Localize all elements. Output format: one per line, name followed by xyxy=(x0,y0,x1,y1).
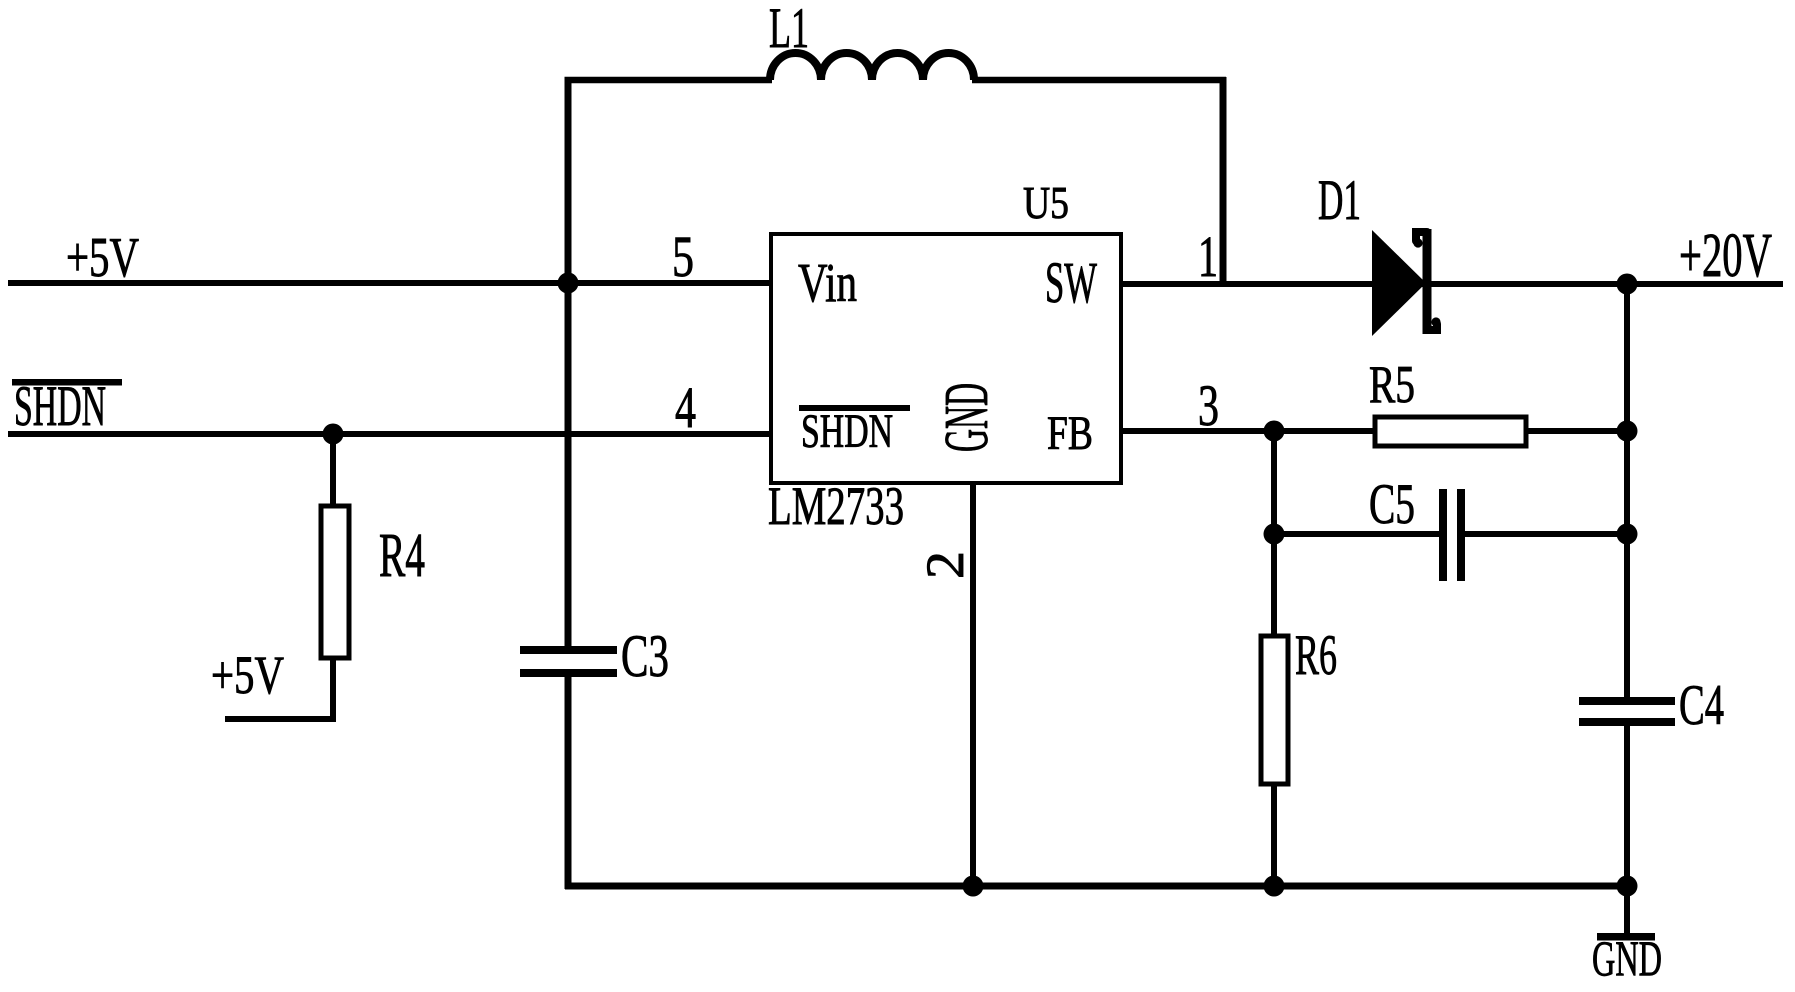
svg-text:+5V: +5V xyxy=(211,645,284,705)
wire C5 right lead xyxy=(1462,531,1627,537)
resistor R5 xyxy=(1369,356,1526,446)
svg-text:R6: R6 xyxy=(1295,624,1337,687)
label SHDN (net, left) xyxy=(12,375,122,438)
svg-text:GND: GND xyxy=(933,383,1001,452)
node: SHDN / R4 junction xyxy=(323,424,344,445)
wire ground bus xyxy=(565,883,1627,890)
svg-text:2: 2 xyxy=(915,551,975,579)
svg-text:4: 4 xyxy=(675,375,696,440)
inductor L1 xyxy=(769,0,974,80)
wire R4 top lead xyxy=(330,434,336,507)
node: C5 left junction xyxy=(1264,524,1285,545)
wire GND (pin 2) down to bus xyxy=(970,483,976,886)
capacitor C3 xyxy=(520,623,669,689)
svg-text:R5: R5 xyxy=(1369,356,1415,414)
svg-text:C5: C5 xyxy=(1369,473,1415,536)
node: C4 / bus junction xyxy=(1617,876,1638,897)
ground GND symbol xyxy=(1592,886,1662,986)
svg-text:C3: C3 xyxy=(621,623,669,689)
node: +20V output junction xyxy=(1617,274,1638,295)
svg-text:U5: U5 xyxy=(1023,177,1069,228)
op-amp U5 (LM2733 boost converter IC) xyxy=(768,177,1121,536)
svg-text:SW: SW xyxy=(1045,250,1097,315)
wire top horizontal right of L1 xyxy=(972,77,1226,84)
svg-text:C4: C4 xyxy=(1679,674,1724,737)
pin label SHDN (inside U5, with overline) xyxy=(799,405,910,458)
node: R6 / bus junction xyxy=(1264,876,1285,897)
svg-text:R4: R4 xyxy=(379,522,425,590)
capacitor C5 xyxy=(1369,473,1465,581)
capacitor C4 xyxy=(1579,674,1724,737)
wire L1 right leg down to SW xyxy=(1220,77,1227,284)
svg-text:L1: L1 xyxy=(769,0,809,60)
wire +5V rail (pin 5) xyxy=(8,280,771,286)
wire output node down to C4 xyxy=(1624,284,1630,700)
svg-text:LM2733: LM2733 xyxy=(768,476,904,536)
resistor R6 xyxy=(1261,624,1337,784)
node: +5V / Vin junction xyxy=(558,273,579,294)
svg-text:SHDN: SHDN xyxy=(14,375,106,438)
wire FB (pin 3) to R5 xyxy=(1121,428,1378,434)
svg-text:D1: D1 xyxy=(1318,169,1361,232)
wire vertical down to C3 xyxy=(565,283,572,649)
node: R5 right junction xyxy=(1617,421,1638,442)
node: pin2 / bus junction xyxy=(963,876,984,897)
wire SW (pin 1) to diode and +20V xyxy=(1121,281,1783,287)
node: FB / R6 junction xyxy=(1264,421,1285,442)
svg-text:SHDN: SHDN xyxy=(801,405,893,458)
svg-text:+20V: +20V xyxy=(1679,222,1772,290)
wire C3 bottom to ground bus xyxy=(565,674,572,889)
resistor R4 xyxy=(321,506,425,658)
svg-text:Vin: Vin xyxy=(798,252,857,313)
wire R6 bottom lead xyxy=(1271,784,1277,889)
wire C4 bottom to ground bus xyxy=(1624,723,1630,886)
svg-text:+5V: +5V xyxy=(66,227,139,289)
wire R5 to output node xyxy=(1524,428,1627,434)
svg-text:GND: GND xyxy=(1592,930,1662,986)
wire vertical from +5V node up to L1 xyxy=(565,80,572,283)
wire R4 bottom lead to +5V stub xyxy=(225,658,333,719)
wire top horizontal left of L1 xyxy=(565,77,773,84)
node: C5 right junction xyxy=(1617,524,1638,545)
wire FB node down to R6 xyxy=(1271,431,1277,636)
svg-text:5: 5 xyxy=(672,224,694,289)
wire SHDN rail (pin 4) xyxy=(8,431,771,437)
wire C5 left lead xyxy=(1274,531,1442,537)
diode D1 (Schottky) xyxy=(1318,169,1441,336)
svg-text:1: 1 xyxy=(1198,224,1218,289)
svg-text:FB: FB xyxy=(1047,407,1093,460)
